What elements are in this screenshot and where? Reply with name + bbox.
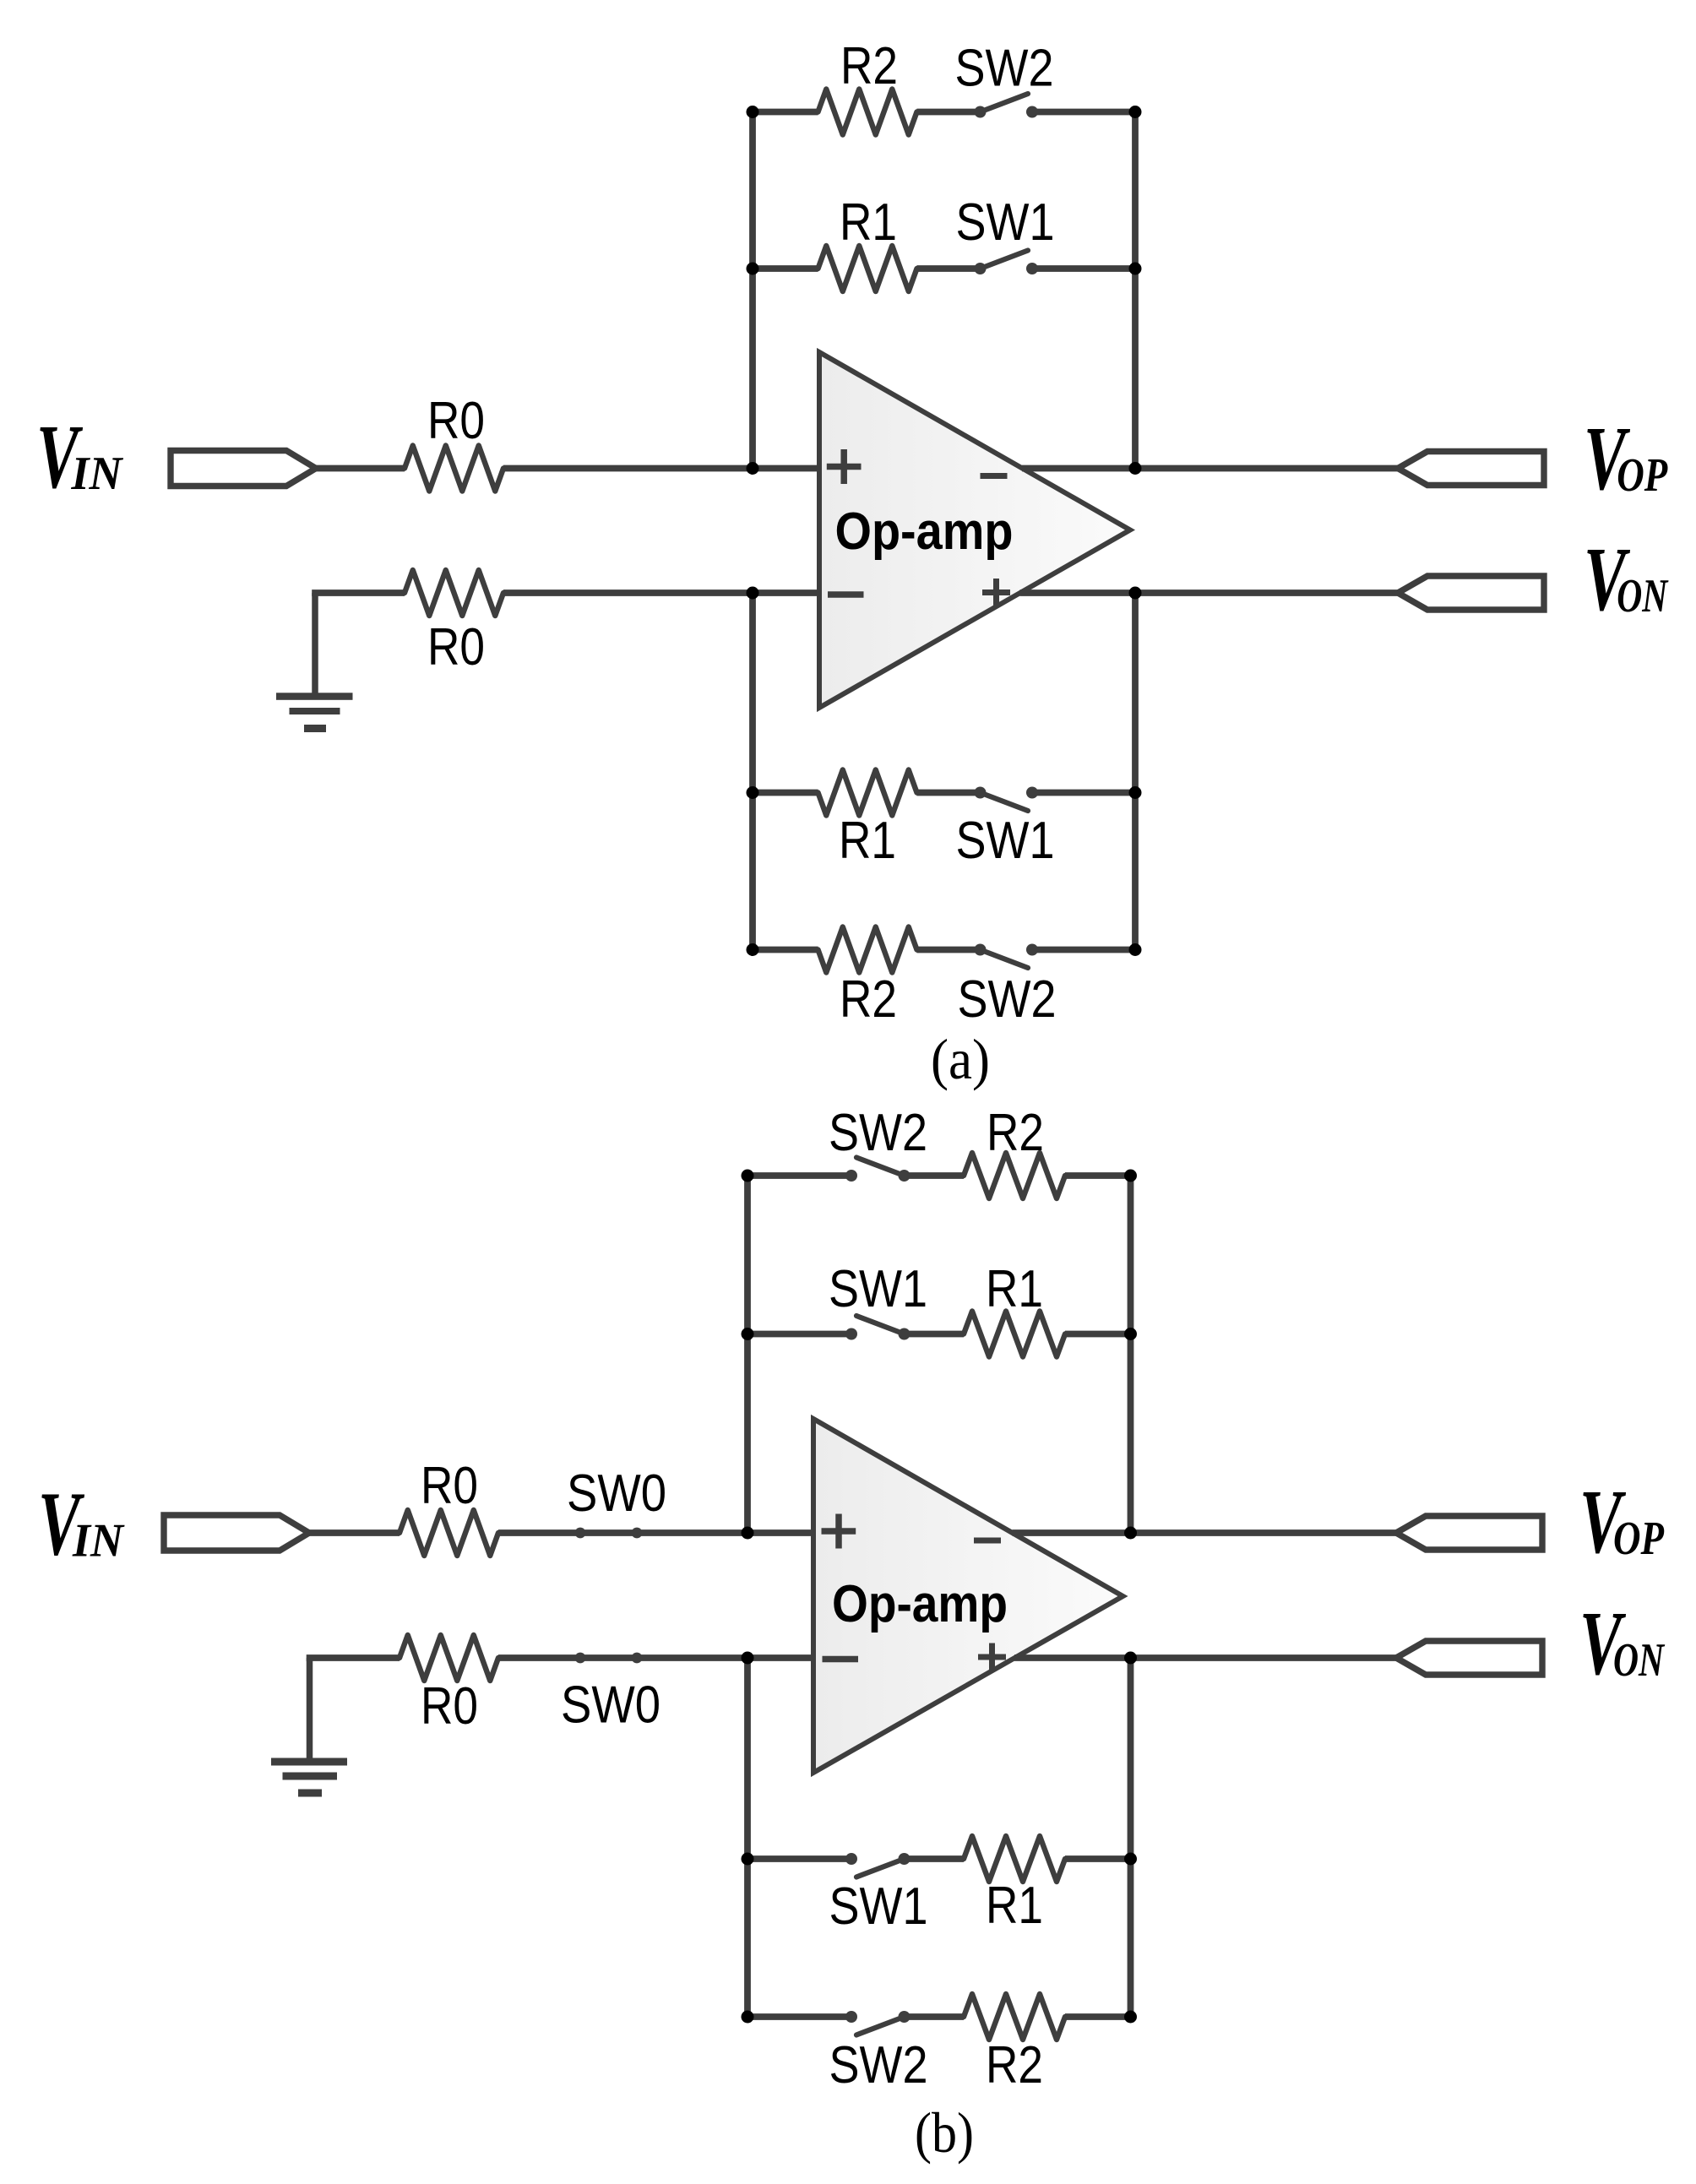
wire: (b) R0 to op-amp noninverting input — [498, 1529, 813, 1536]
node: (a) lower R1 row left junction — [747, 786, 759, 799]
wire: (a) bottom row R1/SW1 segments — [753, 790, 1135, 796]
switch SW0 (b upper closed) — [575, 1528, 643, 1539]
svg-text:R1: R1 — [986, 1260, 1043, 1318]
svg-text:SW0: SW0 — [567, 1464, 666, 1523]
input terminal VIN (b) — [164, 1515, 309, 1551]
svg-text:R1: R1 — [839, 812, 896, 870]
ground (a) — [276, 593, 353, 732]
label VON (b) — [1579, 1594, 1666, 1694]
wire: (b) VIN terminal to R0 — [309, 1529, 400, 1536]
node: (a) VOP bus junction — [1129, 462, 1142, 475]
resistor R2 (a lower feedback) — [818, 927, 917, 973]
switch SW2 (a lower feedback) — [975, 944, 1039, 969]
label VOP (a) — [1584, 409, 1668, 509]
svg-text:SW1: SW1 — [956, 193, 1055, 252]
node: (a) bottom-right junction — [1129, 943, 1142, 956]
op-amp U2 (b) plus sign noninverting input — [822, 1514, 856, 1549]
ground (b) — [271, 1658, 347, 1797]
svg-text:(b): (b) — [915, 2100, 974, 2165]
resistor R1 (b upper) — [964, 1312, 1065, 1357]
svg-text:ON: ON — [1613, 1634, 1666, 1687]
wire: (a) second row R1/SW1 segments — [753, 265, 1135, 272]
wire: (a) left feedback bus upper segment — [749, 112, 756, 469]
node: (b) top-left junction — [742, 1170, 754, 1182]
svg-text:SW1: SW1 — [829, 1877, 928, 1936]
svg-text:SW2: SW2 — [958, 970, 1057, 1029]
op-amp U1 (a) minus sign inverting output — [981, 473, 1008, 479]
svg-text:SW2: SW2 — [955, 40, 1054, 98]
wire: (b) op-amp to VOP terminal — [1013, 1529, 1398, 1536]
svg-text:R2: R2 — [840, 37, 898, 95]
svg-text:OP: OP — [1613, 1513, 1665, 1565]
node: (a) bottom-left junction — [747, 943, 759, 956]
output terminal VON (a) — [1398, 576, 1544, 610]
svg-text:SW1: SW1 — [829, 1260, 927, 1318]
output terminal VON (b) — [1396, 1641, 1542, 1675]
svg-text:IN: IN — [72, 1515, 125, 1567]
op-amp U2 (b) minus sign inverting input — [823, 1656, 859, 1663]
node: (b) VON bus junction — [1124, 1652, 1137, 1665]
switch SW2 (a top) — [975, 94, 1039, 118]
node: (a) top-right junction — [1129, 106, 1142, 118]
node: (b) noninverting input junction — [742, 1527, 754, 1540]
wire: (b) right feedback bus upper segment — [1128, 1176, 1134, 1533]
svg-text:SW2: SW2 — [829, 1104, 927, 1162]
resistor R0 (b lower input) — [400, 1635, 498, 1681]
label VIN (a) — [36, 407, 124, 508]
resistor R1 (a lower feedback) — [818, 770, 917, 816]
wire: (b) right feedback bus lower segment — [1128, 1658, 1134, 2017]
wire: (b) bottom row SW2/R2 segments — [747, 2013, 1131, 2020]
wire: (a) R0 to op-amp noninverting input — [503, 465, 819, 472]
svg-text:(a): (a) — [931, 1027, 990, 1091]
svg-text:SW0: SW0 — [561, 1676, 660, 1735]
op-amp U1 (a) — [819, 352, 1130, 708]
node: (b) SW1 row right junction — [1124, 1328, 1137, 1340]
op-amp U1 (a) minus sign inverting input — [828, 591, 864, 598]
wire: (b) second row SW1/R1 segments — [747, 1331, 1131, 1338]
wire: (a) right feedback bus upper segment — [1132, 112, 1139, 469]
op-amp U2 (b) plus sign noninverting output — [978, 1643, 1006, 1671]
wire: (b) lower R0 to op-amp inverting input — [498, 1654, 813, 1661]
label VOP (b) — [1579, 1472, 1665, 1573]
resistor R1 (a upper) — [818, 246, 917, 291]
node: (b) lower SW1 row left junction — [742, 1853, 754, 1866]
resistor R0 (a lower input) — [405, 570, 503, 616]
node: (b) SW1 row left junction — [742, 1328, 754, 1340]
svg-text:ON: ON — [1617, 570, 1669, 622]
node: (b) lower SW1 row right junction — [1124, 1853, 1137, 1866]
node: (a) VON bus junction — [1129, 587, 1142, 600]
wire: (a) op-amp to VOP terminal — [1022, 465, 1399, 472]
op-amp U2 (b) minus sign inverting output — [974, 1538, 1001, 1544]
svg-text:OP: OP — [1617, 449, 1668, 502]
resistor R0 (b upper input) — [400, 1510, 498, 1556]
wire: (a) op-amp to VON terminal — [1020, 589, 1400, 596]
svg-text:R0: R0 — [427, 618, 485, 676]
switch SW1 (a lower feedback) — [975, 787, 1039, 812]
resistor R1 (b lower feedback) — [964, 1836, 1065, 1882]
op-amp U1 (a) plus sign noninverting output — [982, 579, 1010, 606]
svg-text:Op-amp: Op-amp — [835, 503, 1014, 561]
wire: (a) left feedback bus lower segment — [749, 593, 756, 950]
svg-text:R1: R1 — [840, 193, 897, 252]
switch SW0 (b lower closed) — [575, 1653, 643, 1664]
svg-text:SW1: SW1 — [956, 812, 1055, 870]
wire: (b) bottom row SW1/R1 segments — [747, 1855, 1131, 1862]
switch SW2 (b top) — [845, 1158, 911, 1182]
svg-text:R0: R0 — [427, 392, 485, 450]
node: (a) top-left junction — [747, 106, 759, 118]
label VON (a) — [1584, 530, 1669, 630]
wire: (a) VIN terminal to R0 — [316, 465, 405, 472]
node: (b) inverting input junction — [742, 1652, 754, 1665]
switch SW1 (b lower feedback) — [845, 1853, 911, 1877]
node: (a) R1 row left junction — [747, 263, 759, 275]
node: (a) noninverting input junction — [747, 462, 759, 475]
switch SW1 (a upper) — [975, 251, 1039, 275]
resistor R0 (a upper input) — [405, 446, 503, 492]
svg-text:IN: IN — [71, 448, 124, 500]
wire: (a) bottom row R2/SW2 segments — [753, 947, 1135, 953]
op-amp U1 (a) plus sign noninverting input — [827, 449, 862, 484]
node: (b) bottom-left junction — [742, 2011, 754, 2024]
input terminal VIN (a) — [171, 451, 316, 486]
svg-text:SW2: SW2 — [829, 2036, 928, 2094]
resistor R2 (b lower feedback) — [964, 1994, 1065, 2040]
node: (a) lower R1 row right junction — [1129, 786, 1142, 799]
output terminal VOP (a) — [1398, 452, 1544, 486]
wire: (b) left feedback bus lower segment — [744, 1658, 751, 2017]
node: (a) R1 row right junction — [1129, 263, 1142, 275]
svg-text:R2: R2 — [987, 1104, 1044, 1162]
wire: (b) ground to lower R0 — [307, 1654, 400, 1661]
node: (b) top-right junction — [1124, 1170, 1137, 1182]
op-amp U2 (b) — [813, 1419, 1123, 1773]
wire: (a) right feedback bus lower segment — [1132, 593, 1139, 950]
svg-text:R0: R0 — [421, 1457, 478, 1515]
svg-text:Op-amp: Op-amp — [832, 1575, 1008, 1633]
node: (a) inverting input junction — [747, 587, 759, 600]
wire: (a) top row R2/SW2 segments — [753, 109, 1135, 116]
wire: (b) left feedback bus upper segment — [744, 1176, 751, 1533]
label VIN (b) — [38, 1475, 125, 1575]
node: (b) VOP bus junction — [1124, 1527, 1137, 1540]
output terminal VOP (b) — [1396, 1516, 1542, 1550]
svg-text:R0: R0 — [421, 1677, 478, 1736]
svg-text:R2: R2 — [840, 970, 897, 1029]
wire: (a) lower R0 to op-amp inverting input — [503, 589, 819, 596]
wire: (a) ground to R0 lower — [312, 589, 405, 596]
resistor R2 (a top) — [818, 90, 917, 135]
wire: (b) top row SW2/R2 segments — [747, 1172, 1131, 1179]
svg-text:R1: R1 — [986, 1877, 1043, 1935]
resistor R2 (b top) — [964, 1153, 1065, 1198]
switch SW2 (b lower feedback) — [845, 2011, 911, 2035]
wire: (b) op-amp to VON terminal — [1014, 1654, 1397, 1661]
switch SW1 (b upper) — [845, 1316, 911, 1340]
svg-text:R2: R2 — [986, 2036, 1043, 2094]
node: (b) bottom-right junction — [1124, 2011, 1137, 2024]
